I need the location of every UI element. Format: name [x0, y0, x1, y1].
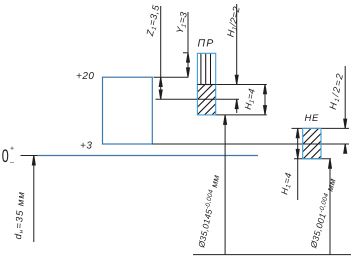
NE top extension line [292, 127, 350, 129]
extension line for PR gauge size [224, 115, 227, 255]
svg-text:–: – [10, 160, 14, 167]
svg-text:НЕ: НЕ [305, 113, 319, 124]
gauge NE tolerance zone (diagonal hatch) [298, 109, 331, 187]
dimension H1 for PR [264, 85, 267, 115]
PR zones boundary line [197, 84, 215, 86]
svg-text:+3: +3 [80, 140, 92, 151]
extension line for NE gauge size [329, 159, 332, 255]
ei level line (extension of +3 to NE zone) [152, 143, 349, 145]
svg-text:0: 0 [2, 146, 9, 166]
shaft tolerance zone rectangle [103, 77, 153, 144]
dimension Z1 extension line [159, 6, 162, 99]
dimension H1/2 for NE [344, 66, 347, 154]
node 0 (origin label with plus and minus) [2, 146, 14, 167]
dimension H1/2 for PR [235, 4, 238, 113]
zero line [38, 155, 259, 157]
PR center line [156, 98, 240, 100]
PR top-of-tolerance extension line [197, 84, 266, 86]
wear zone top tick [183, 52, 188, 54]
gauge PR tolerance zone (diagonal hatch) [193, 67, 223, 142]
extension line for d nominal [32, 156, 35, 243]
svg-text:+20: +20 [76, 71, 94, 82]
svg-text:+: + [10, 146, 14, 153]
NE bottom extension line [294, 158, 331, 160]
PR bottom extension line [216, 114, 267, 116]
svg-text:ПР: ПР [198, 38, 215, 50]
dimension Y1 extension line [187, 12, 190, 77]
dimension H1 for NE [296, 128, 299, 200]
bottom reference line [193, 254, 351, 256]
es level line (extension of +20 to PR zone) [154, 76, 189, 78]
gauge PR wear zone (vertical hatch) [197, 52, 215, 86]
zero line black start segment [21, 155, 38, 157]
